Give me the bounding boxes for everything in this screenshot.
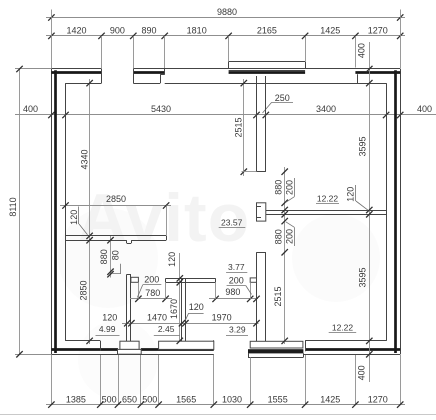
door threshold 650 [118,341,142,354]
dim line 8110 left [8,66,51,358]
left wall outer line [51,69,53,354]
dim text 1270 top [368,26,388,36]
svg-text:500: 500 [142,395,157,405]
svg-text:2165: 2165 [257,26,277,36]
bottom wall thick lines [51,348,400,351]
svg-text:1810: 1810 [187,26,207,36]
label 200 stub C2 [227,275,252,294]
bottom wall caps [101,340,306,351]
dim text 5430 [151,104,171,114]
dim text 3595 upper [358,136,368,156]
label 250 wall thickness [263,93,294,113]
svg-text:1565: 1565 [176,395,196,405]
interior wall 120 right [266,211,386,215]
svg-text:400: 400 [23,104,38,114]
interior wall D horizontal [66,236,167,241]
dim text 3595 lower [358,267,368,287]
pier step 890 [160,69,165,83]
dim 2850 horizontal [60,194,171,236]
window sill 1565 [159,341,214,349]
dim text 900 [110,26,125,36]
svg-text:5430: 5430 [151,104,171,114]
label 200 stub A [137,274,161,297]
label 120 wall B [185,302,203,320]
window sill band 2165 [229,62,306,71]
svg-text:900: 900 [110,26,125,36]
svg-text:1555: 1555 [268,395,288,405]
interior wall post [257,203,266,221]
area 3.29 [226,325,248,336]
svg-text:400: 400 [356,43,366,58]
dim text 120 A [102,313,117,323]
bottom wall outer line [51,354,400,356]
right wall outer line [400,69,402,354]
entry door jambs 900 [102,69,134,83]
label 120 wall right [346,185,368,210]
dim line 9880 overall [46,7,405,21]
dim line 4340+120+2850 left [86,79,92,344]
interior wall 250 lower [257,252,266,341]
svg-text:1425: 1425 [320,395,340,405]
svg-text:2850: 2850 [78,280,88,300]
top wall thick lines [51,71,400,74]
svg-text:880: 880 [273,229,283,244]
dim line right column [366,42,372,382]
dim text 1425 top [320,26,340,36]
interior wall C1 bar [166,278,216,282]
dim text 400 left [23,104,38,114]
porch slab [248,349,304,357]
dim text 2165 [257,26,277,36]
dim text 500 bottom [142,395,157,405]
svg-text:120: 120 [346,187,356,202]
dim 1670 and 120 bar [169,253,183,344]
dim 780 door [130,282,172,302]
dim 2515 upper [233,79,256,176]
svg-text:200: 200 [229,275,244,285]
svg-text:3595: 3595 [358,136,368,156]
label 200 lower [285,222,295,246]
area 12.22 lower [329,323,357,333]
dim text 2850 vertical [78,280,88,300]
svg-text:890: 890 [141,26,156,36]
area 3.77 [226,262,247,272]
svg-text:250: 250 [275,93,290,103]
svg-text:12.22: 12.22 [332,323,354,333]
svg-text:120: 120 [102,313,117,323]
interior wall A vertical [127,274,131,341]
area 23.57 [219,218,246,228]
dim text 400 right [417,104,432,114]
svg-text:1270: 1270 [368,395,388,405]
dim text 2515 lower [273,286,283,306]
dim text 4340 [79,149,89,169]
dim text 400 bottom right [356,365,366,380]
svg-text:12.22: 12.22 [317,194,339,204]
svg-text:500: 500 [102,395,117,405]
dim text 880 lower [273,229,283,244]
label 80 [110,250,120,273]
dim text 1425 bottom [320,395,340,405]
dim text 1565 bottom [176,395,196,405]
extension lines top [52,10,401,69]
wall C2 stub 200 [250,278,256,282]
svg-text:1385: 1385 [66,395,86,405]
dim text 650 bottom [122,395,137,405]
area 2.45 [154,324,180,335]
bottom wall inner line [66,340,387,342]
svg-text:4340: 4340 [79,149,89,169]
dim line top row segments [46,33,405,39]
svg-text:400: 400 [356,365,366,380]
svg-text:3.77: 3.77 [228,262,245,272]
dim line 400+5430+250+3400+400 [15,112,436,118]
svg-text:1420: 1420 [66,26,86,36]
top-right niche lines [357,74,359,83]
photo edge line [0,414,436,416]
left wall thick line [54,70,57,353]
svg-text:200: 200 [285,180,295,195]
top wall inner line [66,83,387,85]
svg-text:880: 880 [99,249,109,264]
area 4.99 [96,324,120,335]
svg-text:980: 980 [225,287,240,297]
dim line bottom row [46,401,405,407]
svg-text:2.45: 2.45 [158,324,175,334]
svg-text:1970: 1970 [212,313,232,323]
label 120 wall D [69,207,88,235]
dim text 1555 bottom [268,395,288,405]
svg-text:200: 200 [285,229,295,244]
svg-text:1470: 1470 [147,313,167,323]
wall A stub 200 [131,277,139,282]
dim text 500 bottom [102,395,117,405]
dim line 880+80 [107,236,113,278]
svg-text:8110: 8110 [8,197,18,216]
dim 980 door [209,282,260,302]
area 12.22 upper [316,194,339,204]
svg-text:80: 80 [110,250,120,260]
svg-text:23.57: 23.57 [221,218,243,228]
watermark [58,180,380,400]
svg-text:4.99: 4.99 [99,324,116,334]
svg-text:1425: 1425 [320,26,340,36]
svg-text:200: 200 [144,274,159,284]
svg-text:400: 400 [417,104,432,114]
svg-text:3400: 3400 [316,104,336,114]
svg-text:1670: 1670 [169,299,179,319]
svg-text:120: 120 [189,302,204,312]
dim text 1270 bottom [368,395,388,405]
svg-text:650: 650 [122,395,137,405]
label 200 upper [285,178,295,202]
svg-text:880: 880 [273,180,283,195]
svg-text:120: 120 [167,252,177,267]
dim text 1420 [66,26,86,36]
svg-text:9880: 9880 [217,7,237,17]
top wall outer line [51,68,400,70]
svg-text:120: 120 [69,210,79,225]
dim text 1810 [187,26,207,36]
svg-text:2515: 2515 [233,117,243,137]
terrace threshold 1555 [250,341,303,348]
svg-text:780: 780 [145,288,160,298]
dim text 880 left [99,249,109,264]
left wall inner line [65,83,67,341]
dim text 1030 bottom [222,395,242,405]
svg-text:3.29: 3.29 [229,325,246,335]
svg-text:1030: 1030 [222,395,242,405]
svg-text:1270: 1270 [368,26,388,36]
interior wall B vertical [182,278,186,341]
dim text 880 upper [273,180,283,195]
svg-text:2850: 2850 [106,194,126,204]
right wall inner line [386,83,388,341]
dim text 400 top right [356,43,366,58]
dim line 880+200+200+880+2515 center [282,167,288,344]
label 120 bar C [167,252,177,267]
wall D jamb tab [127,240,132,243]
right wall thick line [394,70,397,353]
dim text 1385 bottom [66,395,86,405]
dim line 120+1470+1970 [122,320,260,326]
svg-text:2515: 2515 [273,286,283,306]
extension lines bottom [52,355,401,405]
dim text 3400 [316,104,336,114]
dim text 890 [141,26,156,36]
dim text 1970 [212,313,232,323]
interior wall 250 upper [257,76,266,172]
svg-text:3595: 3595 [358,267,368,287]
dim text 1470 [147,313,167,323]
